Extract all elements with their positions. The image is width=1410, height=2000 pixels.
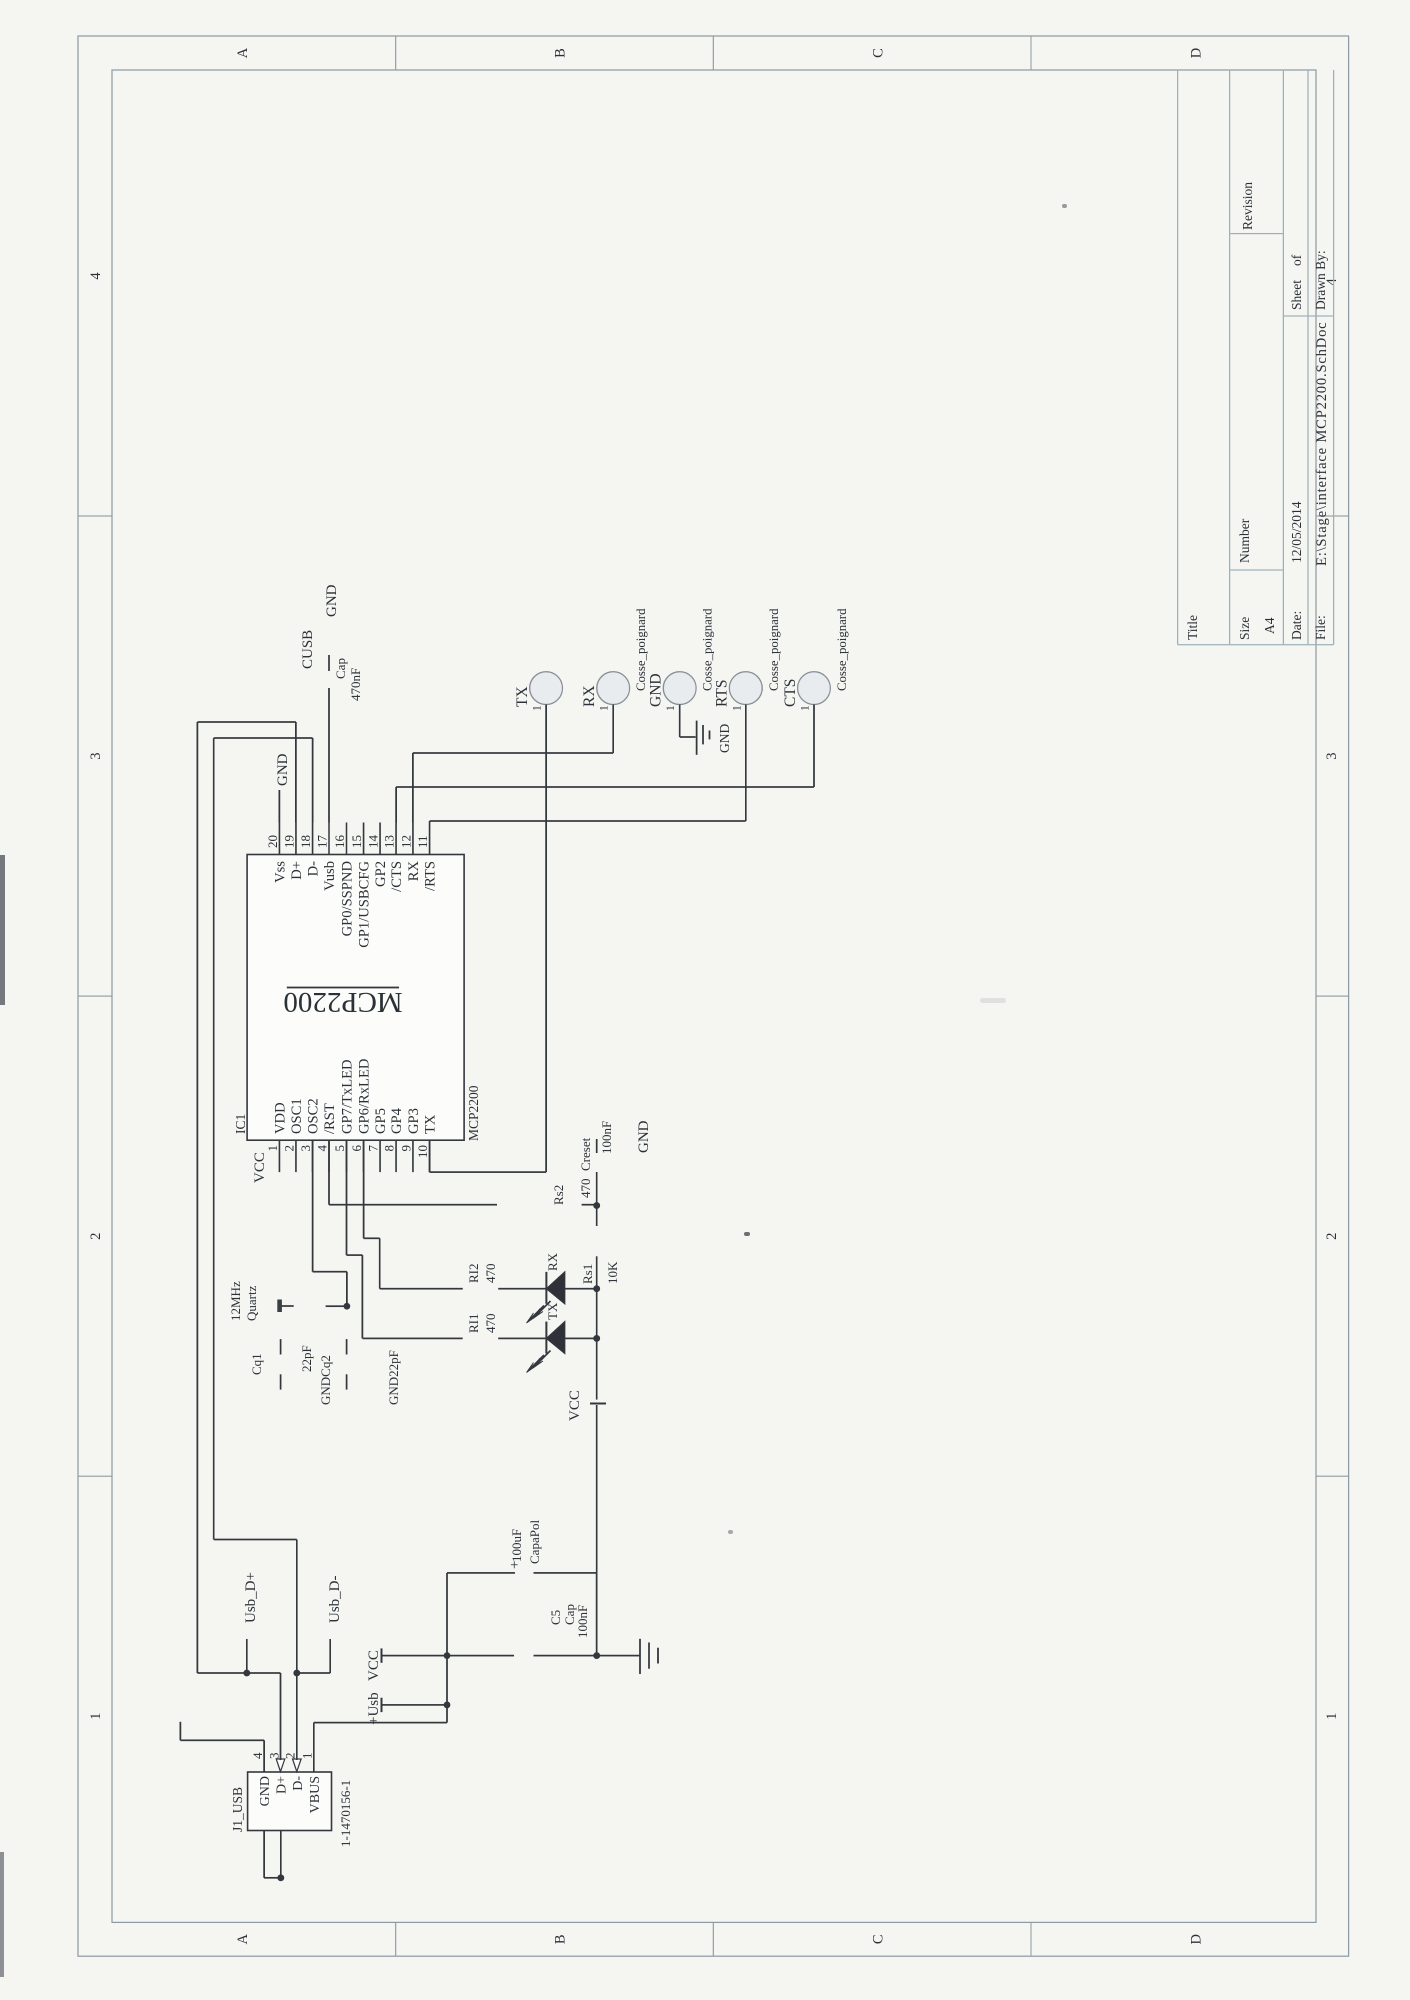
svg-text:Cosse_poignard: Cosse_poignard bbox=[701, 608, 715, 691]
svg-text:10K: 10K bbox=[605, 1261, 620, 1284]
IC IC1 MCP2200 body bbox=[247, 855, 464, 1141]
svg-text:C5: C5 bbox=[548, 1610, 563, 1625]
wire net /RST bbox=[329, 1140, 597, 1205]
LED RX bbox=[546, 1272, 596, 1304]
power port VCC bbox=[366, 1648, 447, 1681]
J1 pin 3 input arrow bbox=[276, 1759, 285, 1772]
svg-text:GP4: GP4 bbox=[389, 1107, 405, 1134]
svg-text:C: C bbox=[871, 48, 887, 58]
svg-text:1: 1 bbox=[532, 705, 544, 711]
connector J1 USB body bbox=[248, 1772, 332, 1831]
svg-text:1: 1 bbox=[1324, 1713, 1340, 1720]
svg-text:1: 1 bbox=[599, 705, 611, 711]
svg-text:8: 8 bbox=[382, 1145, 397, 1152]
wire VCC rail bbox=[596, 1139, 598, 1656]
junction Usb_D+ label stub bbox=[243, 1670, 250, 1677]
svg-text:VCC: VCC bbox=[366, 1650, 382, 1681]
svg-text:CUSB: CUSB bbox=[300, 630, 316, 669]
svg-text:9: 9 bbox=[398, 1145, 413, 1152]
svg-text:GND22pF: GND22pF bbox=[386, 1350, 401, 1405]
svg-text:470nF: 470nF bbox=[348, 668, 363, 701]
svg-text:RTS: RTS bbox=[714, 680, 731, 708]
svg-text:D-: D- bbox=[306, 861, 322, 877]
svg-text:GP5: GP5 bbox=[373, 1108, 389, 1134]
svg-text:1: 1 bbox=[265, 1145, 280, 1152]
svg-text:IC1: IC1 bbox=[233, 1114, 248, 1134]
junction J1 shield bbox=[277, 1874, 284, 1881]
J1 pin 4 stub wire bbox=[263, 1740, 265, 1772]
J1 shield pins stubs bbox=[264, 1831, 281, 1878]
svg-text:RX: RX bbox=[545, 1252, 560, 1271]
J1 pin 3 D+ bbox=[266, 1753, 289, 1795]
wire net RxLED bbox=[364, 1140, 546, 1289]
terminal circle GND Cosse_poignard bbox=[648, 672, 697, 711]
svg-text:D: D bbox=[1188, 48, 1204, 58]
svg-text:GND: GND bbox=[324, 584, 340, 617]
svg-text:1: 1 bbox=[731, 705, 743, 711]
net label GND on Vss bbox=[275, 753, 291, 786]
svg-text:Rs2: Rs2 bbox=[551, 1185, 566, 1205]
terminal circle RTS Cosse_poignard bbox=[714, 672, 763, 711]
svg-text:12: 12 bbox=[398, 835, 413, 848]
IC1 pin 14 GP2 bbox=[366, 823, 390, 887]
ground earth symbol GND terminal bbox=[697, 721, 732, 755]
svg-text:OSC1: OSC1 bbox=[289, 1098, 305, 1134]
net label VCC on VDD pin bbox=[252, 1152, 268, 1183]
IC1 pin 9 GP3 bbox=[398, 1108, 422, 1172]
svg-text:GND: GND bbox=[636, 1120, 652, 1153]
net label GND 22pF bbox=[386, 1350, 401, 1405]
svg-text:B: B bbox=[553, 1934, 569, 1944]
J1 pin 4 GND bbox=[250, 1752, 273, 1806]
svg-text:D+: D+ bbox=[289, 861, 305, 880]
IC1 pin 8 GP4 bbox=[382, 1107, 406, 1172]
svg-text:D+: D+ bbox=[275, 1776, 290, 1794]
svg-text:Sheet: Sheet bbox=[1289, 280, 1304, 310]
capacitor Cq1 22pF bbox=[249, 1339, 314, 1390]
svg-text:6: 6 bbox=[349, 1145, 364, 1152]
svg-text:20: 20 bbox=[265, 835, 280, 848]
junction Usb_D- label stub bbox=[293, 1670, 300, 1677]
J1 pin 2 input arrow bbox=[293, 1759, 302, 1772]
junction +Usb bbox=[444, 1702, 451, 1709]
svg-text:Title: Title bbox=[1185, 615, 1200, 640]
capacitor Cq2 22pF bbox=[318, 1339, 347, 1405]
net label CUSB bbox=[300, 630, 316, 669]
svg-text:VBUS: VBUS bbox=[308, 1776, 323, 1813]
IC1 pin 15 GP1/USBCFG bbox=[349, 823, 373, 948]
svg-text:1: 1 bbox=[300, 1753, 315, 1760]
scanner edge artifact bbox=[0, 855, 5, 1005]
svg-text:Usb_D+: Usb_D+ bbox=[243, 1572, 259, 1623]
wire Vss GND stub bbox=[278, 790, 280, 823]
IC1 pin 10 TX bbox=[415, 1114, 439, 1172]
svg-text:E:\Stage\interface MCP2200.Sc: E:\Stage\interface MCP2200.SchDoc bbox=[1314, 322, 1330, 566]
svg-text:C: C bbox=[871, 1934, 887, 1944]
svg-text:A: A bbox=[235, 1934, 251, 1945]
svg-text:OSC2: OSC2 bbox=[306, 1098, 322, 1134]
svg-text:CTS: CTS bbox=[782, 679, 799, 707]
terminal circle TX Cosse_poignard bbox=[514, 672, 563, 711]
junction VCC tap bbox=[444, 1652, 451, 1659]
resistor Rs1 10K bbox=[580, 1261, 620, 1284]
resistor Rs2 470 bbox=[551, 1137, 593, 1205]
svg-text:470: 470 bbox=[483, 1264, 498, 1284]
svg-text:2: 2 bbox=[281, 1145, 296, 1152]
resistor RI1 470 bbox=[466, 1314, 498, 1334]
svg-text:TX: TX bbox=[423, 1114, 439, 1134]
IC1 pin 18 D- bbox=[298, 823, 322, 877]
svg-text:Vss: Vss bbox=[272, 861, 288, 883]
svg-text:GP1/USBCFG: GP1/USBCFG bbox=[357, 861, 373, 948]
LED TX bbox=[546, 1322, 596, 1354]
wire net TX to circle bbox=[430, 705, 546, 1173]
svg-text:GP6/RxLED: GP6/RxLED bbox=[357, 1059, 373, 1134]
svg-text:GP7/TxLED: GP7/TxLED bbox=[340, 1059, 356, 1134]
svg-text:3: 3 bbox=[1324, 752, 1340, 759]
capacitor CapaPol 100uF bbox=[447, 1520, 597, 1573]
scan smudge bbox=[980, 998, 1006, 1003]
IC1 pin 17 Vusb bbox=[315, 823, 339, 891]
svg-text:100uF: 100uF bbox=[509, 1529, 524, 1562]
power port +Usb bbox=[366, 1692, 447, 1725]
capacitor C5 100nF bbox=[447, 1604, 597, 1656]
svg-text:MCP2200: MCP2200 bbox=[283, 986, 402, 1018]
svg-text:A: A bbox=[235, 47, 251, 58]
terminal circle RX Cosse_poignard bbox=[581, 672, 630, 711]
label Cosse_poignard CTS bbox=[835, 608, 849, 691]
svg-text:GNDCq2: GNDCq2 bbox=[318, 1355, 333, 1405]
IC1 pin 16 GP0/SSPND bbox=[332, 823, 356, 937]
svg-text:Cap: Cap bbox=[333, 658, 348, 679]
svg-text:5: 5 bbox=[332, 1145, 347, 1152]
scanner edge artifact lower bbox=[0, 1852, 4, 1977]
svg-text:Vusb: Vusb bbox=[322, 861, 338, 891]
svg-text:4: 4 bbox=[315, 1145, 330, 1152]
J1 designator bbox=[230, 1787, 245, 1832]
LED RX arrows bbox=[527, 1301, 551, 1323]
svg-text:470: 470 bbox=[578, 1179, 593, 1199]
IC1 pin 11 /RTS bbox=[415, 823, 439, 891]
wire net RTS to circle bbox=[430, 705, 746, 823]
scan speck bbox=[744, 1232, 750, 1236]
label Cosse_poignard RX bbox=[634, 608, 648, 691]
svg-text:Rs1: Rs1 bbox=[580, 1264, 595, 1284]
IC1 pin 19 D+ bbox=[281, 823, 305, 880]
scan speck bbox=[728, 1530, 733, 1534]
IC1 pin 5 GP7/TxLED bbox=[332, 1059, 356, 1172]
wire net Usb_D+ bbox=[197, 722, 296, 1760]
scan speck bbox=[1062, 204, 1067, 208]
svg-text:/RTS: /RTS bbox=[423, 861, 439, 891]
svg-text:RX: RX bbox=[406, 861, 422, 882]
sheet inner border bbox=[112, 70, 1316, 1922]
svg-text:Date:: Date: bbox=[1289, 611, 1304, 640]
IC1 pin 1 VDD bbox=[265, 1102, 289, 1172]
net label Usb_D- bbox=[327, 1575, 343, 1623]
svg-text:470: 470 bbox=[483, 1314, 498, 1334]
svg-text:Number: Number bbox=[1237, 518, 1252, 563]
label Cosse_poignard GND bbox=[701, 608, 715, 691]
svg-text:4: 4 bbox=[88, 272, 104, 280]
svg-text:/RST: /RST bbox=[322, 1103, 338, 1134]
svg-text:15: 15 bbox=[349, 835, 364, 848]
wire net CUSB bbox=[328, 655, 330, 823]
svg-text:22pF: 22pF bbox=[299, 1345, 314, 1372]
svg-text:Cosse_poignard: Cosse_poignard bbox=[767, 608, 781, 691]
svg-text:Drawn By:: Drawn By: bbox=[1313, 250, 1328, 310]
svg-text:Cosse_poignard: Cosse_poignard bbox=[835, 608, 849, 691]
J1 part number label bbox=[338, 1780, 353, 1847]
svg-text:1-1470156-1: 1-1470156-1 bbox=[338, 1780, 353, 1847]
svg-text:13: 13 bbox=[382, 835, 397, 848]
IC1 pin 13 /CTS bbox=[382, 823, 406, 892]
wire CapaPol bottom bbox=[596, 1573, 598, 1656]
svg-text:of: of bbox=[1289, 254, 1304, 266]
wire net Usb_D- bbox=[214, 738, 331, 1760]
svg-text:12MHz: 12MHz bbox=[228, 1281, 243, 1321]
IC1 part name label bbox=[466, 1085, 481, 1141]
net label GND on CUSB cap bbox=[324, 584, 340, 617]
junction /RST rail bbox=[593, 1202, 600, 1209]
IC1 pin 2 OSC1 bbox=[281, 1098, 305, 1172]
svg-text:3: 3 bbox=[88, 752, 104, 759]
IC1 designator bbox=[233, 1114, 248, 1134]
svg-text:1: 1 bbox=[800, 705, 812, 711]
title block grid bbox=[1178, 70, 1334, 645]
svg-text:2: 2 bbox=[283, 1753, 298, 1760]
svg-text:17: 17 bbox=[315, 835, 330, 849]
svg-text:10: 10 bbox=[415, 1145, 430, 1158]
svg-text:100nF: 100nF bbox=[575, 1605, 590, 1638]
svg-text:1: 1 bbox=[665, 705, 677, 711]
wire GND circle to earth bbox=[680, 705, 696, 738]
label Cosse_poignard RTS bbox=[767, 608, 781, 691]
svg-text:GND: GND bbox=[648, 673, 665, 707]
svg-text:7: 7 bbox=[366, 1145, 381, 1152]
svg-text:Creset: Creset bbox=[578, 1137, 593, 1171]
svg-text:2: 2 bbox=[88, 1233, 104, 1240]
label TX led bbox=[545, 1302, 560, 1320]
wire net TxLED bbox=[347, 1140, 546, 1338]
svg-text:19: 19 bbox=[281, 835, 296, 848]
svg-text:4: 4 bbox=[250, 1752, 265, 1759]
svg-text:12/05/2014: 12/05/2014 bbox=[1289, 501, 1304, 563]
IC1 pin 12 RX bbox=[398, 823, 422, 882]
svg-text:3: 3 bbox=[266, 1753, 281, 1760]
svg-text:GND: GND bbox=[717, 724, 732, 753]
IC1 pin 3 OSC2 bbox=[298, 1098, 322, 1172]
svg-text:J1_USB: J1_USB bbox=[230, 1787, 245, 1832]
svg-text:/CTS: /CTS bbox=[389, 861, 405, 892]
svg-text:A4: A4 bbox=[1262, 617, 1277, 634]
svg-text:2: 2 bbox=[1324, 1233, 1340, 1240]
junction TxLED rail bbox=[593, 1335, 600, 1342]
svg-text:18: 18 bbox=[298, 835, 313, 848]
svg-text:MCP2200: MCP2200 bbox=[466, 1085, 481, 1141]
svg-text:GND: GND bbox=[275, 753, 291, 786]
svg-text:1: 1 bbox=[88, 1713, 104, 1720]
crystal Y1 quartz bbox=[228, 1281, 294, 1321]
svg-text:B: B bbox=[553, 48, 569, 58]
IC1 pin 7 GP5 bbox=[366, 1108, 390, 1172]
net label Usb_D+ bbox=[243, 1572, 259, 1623]
svg-text:Cq1: Cq1 bbox=[249, 1353, 264, 1375]
title block text bbox=[1185, 182, 1330, 640]
IC1 pin 20 Vss bbox=[265, 823, 289, 883]
junction RxLED rail bbox=[593, 1285, 600, 1292]
svg-text:VDD: VDD bbox=[272, 1102, 288, 1134]
svg-text:14: 14 bbox=[366, 835, 381, 849]
svg-text:+Usb: +Usb bbox=[366, 1692, 382, 1725]
wire net RX to circle bbox=[413, 705, 613, 823]
resistor RI2 470 bbox=[466, 1264, 498, 1284]
svg-text:GP3: GP3 bbox=[406, 1108, 422, 1134]
svg-text:VCC: VCC bbox=[252, 1152, 268, 1183]
IC1 pin 4 /RST bbox=[315, 1103, 339, 1172]
wire net OSC2 bbox=[313, 1140, 347, 1306]
svg-text:GND: GND bbox=[258, 1776, 273, 1806]
J1 pin 2 D- bbox=[283, 1753, 306, 1791]
svg-text:File:: File: bbox=[1313, 615, 1328, 640]
wire net VBUS bbox=[314, 1573, 447, 1772]
LED TX arrows bbox=[527, 1351, 551, 1373]
svg-text:D-: D- bbox=[291, 1776, 306, 1791]
svg-text:RI2: RI2 bbox=[466, 1264, 481, 1284]
J1 pin 1 VBUS bbox=[300, 1753, 323, 1814]
svg-text:RI1: RI1 bbox=[466, 1314, 481, 1334]
svg-text:Cosse_poignard: Cosse_poignard bbox=[634, 608, 648, 691]
terminal circle CTS Cosse_poignard bbox=[782, 672, 831, 711]
svg-text:D: D bbox=[1188, 1934, 1204, 1944]
svg-text:Revision: Revision bbox=[1240, 182, 1255, 230]
svg-text:Usb_D-: Usb_D- bbox=[327, 1575, 343, 1623]
junction C5 bottom bbox=[593, 1652, 600, 1659]
ground earth symbol bbox=[597, 1639, 658, 1674]
svg-text:GP0/SSPND: GP0/SSPND bbox=[340, 861, 356, 936]
svg-text:Quartz: Quartz bbox=[244, 1285, 259, 1321]
wire net CTS to circle bbox=[396, 705, 814, 823]
capacitor CUSB labels bbox=[333, 658, 363, 701]
svg-text:VCC: VCC bbox=[567, 1390, 583, 1421]
svg-text:3: 3 bbox=[298, 1145, 313, 1152]
svg-text:CapaPol: CapaPol bbox=[527, 1520, 542, 1564]
junction OSC2 crystal bbox=[344, 1303, 351, 1310]
net label GND creset bbox=[636, 1120, 652, 1153]
svg-text:16: 16 bbox=[332, 835, 347, 849]
svg-text:RX: RX bbox=[581, 685, 598, 707]
svg-text:11: 11 bbox=[415, 835, 430, 848]
svg-text:TX: TX bbox=[514, 686, 531, 707]
capacitor Creset 100nF bbox=[599, 1121, 614, 1154]
svg-text:GP2: GP2 bbox=[373, 861, 389, 887]
IC1 pin 6 GP6/RxLED bbox=[349, 1059, 373, 1173]
svg-text:100nF: 100nF bbox=[599, 1121, 614, 1154]
wire J1 GND open stub bbox=[180, 1722, 264, 1741]
label RX led bbox=[545, 1252, 560, 1271]
svg-text:Size: Size bbox=[1237, 617, 1252, 640]
power port VCC rail bbox=[567, 1390, 606, 1421]
